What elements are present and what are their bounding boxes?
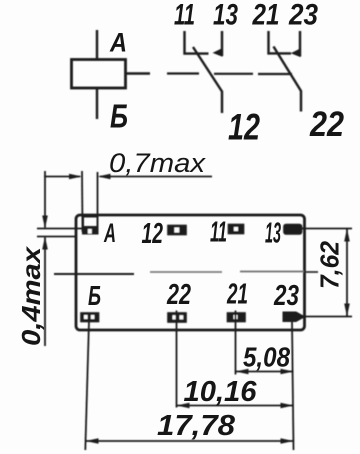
svg-text:21: 21 bbox=[252, 0, 280, 32]
svg-text:13: 13 bbox=[213, 0, 238, 32]
svg-text:23: 23 bbox=[288, 0, 318, 32]
svg-text:10,16: 10,16 bbox=[184, 376, 258, 408]
svg-text:12: 12 bbox=[142, 218, 164, 250]
svg-text:5,08: 5,08 bbox=[243, 342, 290, 373]
svg-text:А: А bbox=[109, 28, 127, 58]
svg-text:13: 13 bbox=[265, 218, 281, 250]
svg-text:А: А bbox=[103, 218, 116, 248]
svg-text:11: 11 bbox=[174, 0, 195, 32]
svg-text:7,62: 7,62 bbox=[315, 240, 345, 289]
svg-text:22: 22 bbox=[309, 105, 344, 144]
svg-text:22: 22 bbox=[166, 279, 191, 311]
svg-text:Б: Б bbox=[110, 98, 128, 135]
svg-text:23: 23 bbox=[273, 280, 299, 312]
svg-text:11: 11 bbox=[210, 217, 227, 249]
svg-text:0,4max: 0,4max bbox=[16, 245, 46, 346]
svg-text:0,7max: 0,7max bbox=[109, 148, 207, 178]
svg-text:21: 21 bbox=[226, 279, 248, 311]
svg-text:17,78: 17,78 bbox=[157, 410, 236, 442]
svg-text:Б: Б bbox=[88, 280, 101, 311]
svg-text:12: 12 bbox=[228, 107, 260, 148]
